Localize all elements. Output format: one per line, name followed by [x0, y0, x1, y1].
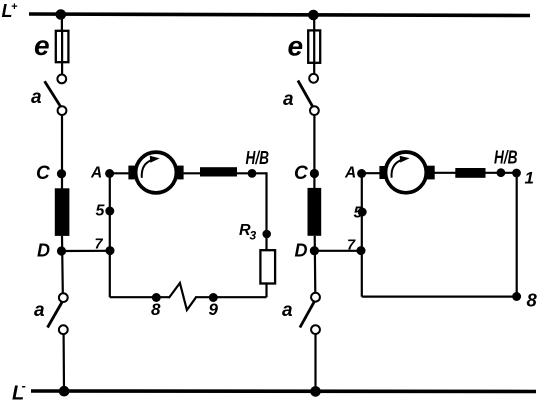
svg-text:H/B: H/B: [494, 148, 518, 168]
fuse e (right): element wire through body: [313, 31, 315, 74]
resistor R3 (outline body): [260, 250, 275, 283]
switch a upper-left: blade: [45, 81, 61, 107]
node A (left): [105, 169, 114, 178]
svg-text:D: D: [295, 241, 308, 261]
switch a upper-left: moving contact circle: [58, 106, 67, 115]
resistor C-D (left, filled body): [55, 188, 70, 236]
switch a upper-right: blade: [298, 81, 313, 108]
motor armature M (left): brush right: [176, 166, 183, 180]
svg-text:3: 3: [250, 229, 257, 243]
node 8 (right): [512, 292, 521, 301]
wire from motor to field winding (right): [434, 172, 456, 174]
svg-text:5: 5: [354, 205, 364, 222]
wire D to node 7 (right): [314, 250, 361, 252]
wire from R3 to bottom of left loop: [265, 284, 267, 298]
switch a lower-left: upper contact circle: [59, 293, 68, 302]
wire from node A to motor (right): [362, 172, 384, 174]
motor armature M (left): brush left: [128, 166, 136, 180]
wire from node A to motor (left): [110, 172, 134, 174]
node D (right): [310, 246, 319, 255]
node C (right): [310, 169, 319, 178]
node junction of left branch on L+ bus: [56, 9, 67, 20]
wire from lower-right switch to L- bus: [314, 334, 316, 392]
wire break symbol between 8 and 9: [169, 283, 196, 310]
node A (right): [357, 169, 366, 178]
node D (left): [57, 246, 66, 255]
node C (left): [57, 169, 66, 178]
svg-text:8: 8: [527, 290, 538, 311]
svg-text:-: -: [22, 378, 26, 393]
wire left side of right measuring loop (A down to bottom): [361, 173, 363, 296]
node 5 (left): [105, 207, 114, 216]
wire right side of right loop (node 1 down to node 8): [516, 173, 518, 297]
node above R3 (left): [262, 230, 271, 239]
svg-text:+: +: [11, 1, 18, 13]
svg-text:7: 7: [95, 237, 104, 253]
svg-text:e: e: [288, 31, 304, 62]
svg-text:D: D: [37, 241, 50, 261]
motor armature M (right): brush right: [427, 166, 435, 180]
wire from upper-right switch to resistor C-D (right): [313, 115, 315, 189]
svg-text:9: 9: [209, 300, 219, 319]
node 7 (left): [106, 246, 115, 255]
node 5 (right): [358, 208, 367, 217]
wire L+ top bus: [29, 14, 530, 16]
wire bottom of left loop from break to corner R3: [195, 296, 267, 298]
svg-text:A: A: [90, 165, 102, 182]
svg-text:a: a: [31, 87, 42, 108]
switch a lower-left: lower contact circle: [59, 325, 68, 334]
wire left side of left measuring loop (A down to bottom): [109, 173, 111, 297]
switch a lower-right: blade: [300, 301, 315, 327]
svg-text:8: 8: [151, 300, 161, 319]
switch a lower-right: lower contact circle: [311, 325, 320, 334]
resistor C-D (right, filled body): [308, 188, 322, 236]
svg-text:a: a: [34, 300, 45, 321]
switch a lower-right: upper contact circle: [311, 293, 320, 302]
field winding resistor (left, filled body): [200, 167, 237, 176]
svg-text:a: a: [282, 300, 293, 321]
motor armature M (right): body circle: [386, 152, 427, 193]
wire L- bottom bus: [31, 389, 536, 393]
motor armature M (left): body circle: [136, 152, 177, 193]
fuse e (left): element wire through body: [61, 31, 63, 75]
svg-text:a: a: [283, 89, 294, 110]
svg-text:e: e: [34, 30, 50, 61]
wire D to node 7 (left): [62, 250, 111, 252]
node 7 (right): [357, 246, 366, 255]
motor armature M (right): rotation arrow: [392, 160, 403, 178]
motor armature M (right): rotation arrow head: [400, 156, 410, 163]
node 1 (right): [512, 169, 521, 178]
switch a lower-left: blade: [48, 302, 63, 328]
switch a upper-right: fixed contact circle: [309, 74, 318, 83]
node junction of right branch on L+ bus: [308, 10, 319, 21]
node junction of right branch on L- bus: [310, 386, 321, 397]
svg-text:5: 5: [96, 203, 106, 220]
wire from lower-left switch to L- bus: [62, 334, 65, 391]
motor armature M (right): brush left: [379, 166, 387, 179]
svg-text:H/B: H/B: [246, 148, 270, 168]
node H|B (left): [248, 169, 257, 178]
wire from motor to field winding (left): [183, 172, 201, 174]
svg-text:7: 7: [347, 238, 356, 254]
motor armature M (left): rotation arrow: [142, 160, 153, 178]
motor armature M (left): rotation arrow head: [150, 156, 160, 163]
svg-text:A: A: [344, 164, 356, 181]
wire bottom of right loop: [362, 296, 517, 298]
node 9 (left): [209, 293, 218, 302]
node H|B (right): [497, 168, 506, 177]
fuse e (left): body rectangle: [56, 31, 69, 62]
svg-text:C: C: [36, 163, 50, 184]
svg-text:1: 1: [525, 169, 534, 188]
field winding resistor (right, filled body): [455, 168, 485, 178]
node 8 (left): [152, 293, 161, 302]
wire from resistor C-D to lower-right switch: [314, 236, 317, 293]
fuse e (right): body rectangle: [308, 30, 320, 62]
wire right side of left loop down to resistor R3: [265, 172, 267, 251]
wire bottom of left loop from corner to node 8: [110, 296, 170, 298]
wire from upper-left switch to resistor C-D: [61, 115, 63, 189]
wire from resistor C-D to lower-left switch: [61, 236, 64, 293]
wire from field winding to corner H|B (left): [237, 172, 267, 174]
switch a upper-left: fixed contact circle: [57, 75, 66, 84]
svg-text:C: C: [294, 163, 308, 184]
wire from L+ bus to fuse e (right): [313, 15, 315, 31]
wire from L+ bus to fuse e (left): [61, 15, 63, 32]
wire from field winding to node 1 (right): [486, 172, 517, 174]
node junction of left branch on L- bus: [59, 386, 70, 397]
switch a upper-right: moving contact circle: [310, 106, 319, 115]
